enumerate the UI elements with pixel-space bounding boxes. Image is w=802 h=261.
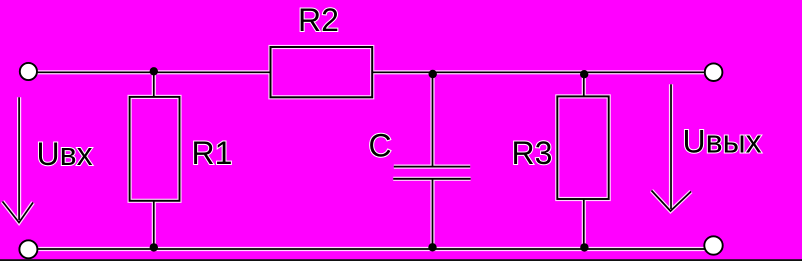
wire: R1 bottom lead (153, 201, 155, 249)
svg-text:R2: R2 (298, 2, 339, 38)
node: C top junction (429, 70, 437, 78)
node: R1 top junction (150, 67, 158, 75)
wire: R3 bottom lead (583, 199, 585, 249)
terminal: output top (705, 63, 723, 81)
node: C bottom junction (428, 243, 436, 251)
arrow: Uvyx (output voltage) (652, 84, 692, 211)
wire: R3 top lead (583, 74, 585, 96)
svg-text:R1: R1 (192, 135, 233, 171)
arrow: Uvx (input voltage) (3, 97, 34, 222)
wire: C top lead (432, 74, 434, 166)
white halos under wires (3, 47, 705, 249)
terminal: output bottom (704, 236, 722, 254)
svg-text:Uвх: Uвх (37, 136, 93, 172)
wire: top rail right segment (372, 71, 705, 73)
terminal: input top (20, 63, 37, 80)
svg-text:C: C (369, 128, 392, 164)
terminal: input bottom (19, 240, 37, 258)
wire: bottom rail (37, 248, 704, 250)
capacitor C (393, 167, 470, 179)
bottom border line (0, 259, 802, 261)
svg-text:Uвых: Uвых (683, 124, 762, 160)
svg-text:R3: R3 (512, 135, 553, 171)
wire: R1 top lead (153, 72, 155, 97)
wire: C bottom lead (432, 179, 434, 249)
wire: top rail left segment (38, 71, 271, 73)
resistor R1 (130, 97, 180, 201)
resistor R2 (271, 47, 373, 97)
node: R3 top junction (580, 70, 588, 78)
node: R3 bottom junction (580, 243, 588, 251)
node: R1 bottom junction (150, 243, 158, 251)
resistor R3 (557, 96, 608, 199)
